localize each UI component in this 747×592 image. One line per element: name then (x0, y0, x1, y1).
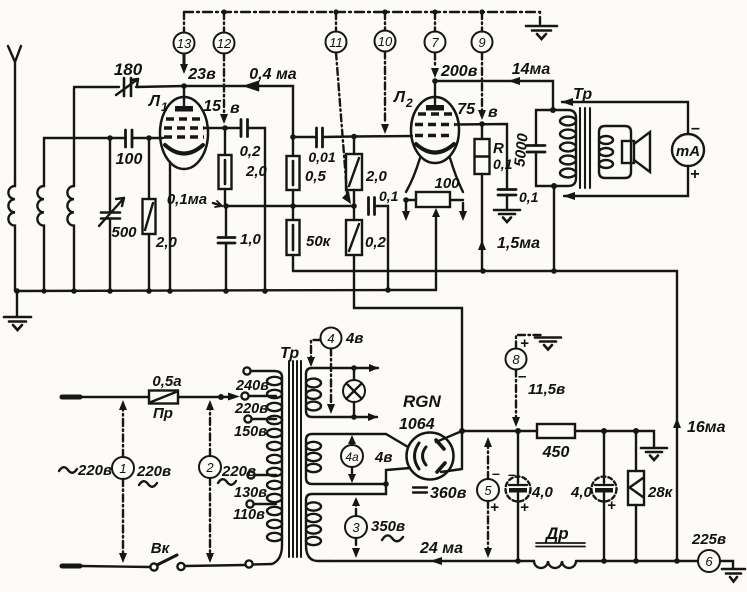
svg-text:2,0: 2,0 (155, 234, 178, 251)
svg-text:4в: 4в (374, 449, 392, 466)
svg-text:0,5: 0,5 (305, 168, 327, 185)
test point 1 (112, 400, 134, 563)
svg-text:220в: 220в (77, 462, 112, 479)
trimmer capacitor 180 (116, 78, 138, 96)
svg-text:50к: 50к (306, 233, 332, 250)
svg-text:75: 75 (457, 101, 476, 118)
svg-text:0,2: 0,2 (240, 143, 262, 160)
capacitor 0,1 coupling (369, 198, 389, 292)
node 386,484 (383, 481, 389, 487)
test point 4 (307, 328, 342, 415)
resistor 0,2 slashed (346, 206, 462, 431)
svg-text:4в: 4в (345, 330, 363, 347)
bleeder resistor 28k (628, 431, 644, 561)
svg-text:100: 100 (116, 151, 143, 168)
tube U2 cathode (416, 144, 454, 153)
svg-text:тА: тА (676, 143, 700, 160)
arrow 0,4ma (246, 82, 258, 90)
wire grid row (44, 137, 163, 139)
svg-text:130в: 130в (234, 485, 267, 501)
switch Vk (150, 555, 245, 571)
svg-text:15: 15 (203, 98, 222, 115)
svg-text:1: 1 (119, 461, 126, 476)
svg-text:200в: 200в (440, 63, 478, 80)
test point 4a (341, 435, 363, 483)
coil L1c (67, 88, 74, 291)
svg-text:+: + (520, 499, 529, 516)
svg-text:0,5а: 0,5а (152, 373, 181, 390)
svg-text:Пр: Пр (153, 405, 173, 422)
coil L1b (37, 138, 44, 291)
test point 7 (425, 12, 446, 78)
tube U1 cathode lead (169, 162, 171, 291)
svg-text:2,0: 2,0 (365, 168, 388, 185)
potentiometer 100 (403, 192, 463, 207)
wire 200v plate feed (435, 81, 553, 110)
svg-text:1: 1 (161, 100, 168, 114)
node 226,206 (223, 203, 229, 209)
resistor 2,0 anode load (219, 128, 232, 206)
svg-text:360в: 360в (430, 485, 467, 502)
node grid row (107, 135, 152, 141)
variable capacitor 500 (99, 138, 124, 291)
svg-text:4а: 4а (345, 450, 359, 464)
wire top row (74, 86, 293, 137)
svg-text:–: – (492, 465, 500, 481)
svg-text:+: + (490, 499, 499, 516)
tube U1 grids (164, 119, 204, 137)
power transformer primary winding (267, 377, 282, 564)
test point 2 (199, 400, 221, 563)
svg-text:23в: 23в (187, 66, 216, 83)
svg-text:R: R (493, 140, 504, 157)
node 604,431 (601, 428, 607, 434)
svg-text:100: 100 (434, 175, 460, 192)
wire meter top (561, 98, 688, 134)
electrolytic capacitor 4,0 first (506, 431, 531, 561)
svg-text:6: 6 (705, 554, 713, 569)
test point 3 (345, 497, 367, 558)
wire grid L2 (354, 135, 412, 138)
rectifier tube RGN1064 (407, 433, 454, 480)
svg-text:4: 4 (327, 331, 334, 346)
B+ wire to filter (462, 431, 654, 447)
secondary HV 350v winding (306, 485, 386, 561)
capacitor 100 (126, 130, 133, 147)
arrow 16ma (673, 418, 681, 428)
svg-text:0,1: 0,1 (519, 189, 539, 205)
svg-text:2,0: 2,0 (245, 163, 268, 180)
svg-text:–: – (518, 368, 526, 385)
svg-text:0,1: 0,1 (379, 188, 399, 204)
fuse Pr 0,5a (149, 391, 233, 404)
svg-text:0,1ма: 0,1ма (167, 191, 207, 208)
svg-text:+: + (607, 497, 616, 514)
arrow 0,1ma (213, 201, 222, 207)
test point 11 (326, 12, 352, 204)
choke Dr (534, 543, 585, 568)
node 636,431 (633, 428, 639, 434)
svg-text:Тр: Тр (573, 86, 592, 103)
capacitor 0,01 (293, 128, 354, 147)
ground at 6 (720, 561, 745, 582)
svg-text:1,5ма: 1,5ма (497, 235, 540, 252)
svg-text:24 ма: 24 ма (419, 540, 463, 557)
svg-text:13: 13 (177, 36, 192, 51)
bus A plus rail (293, 271, 677, 561)
resistor R 0,1 two-section (475, 124, 490, 271)
arrow pot right down (459, 203, 467, 221)
wire anode L2 row (455, 124, 507, 188)
ground at 8 (535, 338, 561, 350)
svg-text:Вк: Вк (151, 540, 171, 557)
arrow pot wiper up (432, 208, 440, 290)
svg-text:12: 12 (217, 36, 232, 51)
capacitor 0,2 (241, 120, 248, 137)
pilot lamp (343, 365, 365, 420)
node 554,271 (551, 268, 557, 274)
tube U2 filament legs (406, 158, 463, 192)
secondary 4v pilot winding (306, 364, 379, 421)
svg-text:16ма: 16ма (687, 419, 726, 436)
svg-text:4,0: 4,0 (570, 484, 593, 501)
svg-text:9: 9 (478, 35, 485, 50)
node 221,397 (218, 394, 224, 400)
arrow to tap 220v (228, 393, 240, 401)
tube U1 top cap (175, 86, 193, 112)
svg-text:220в: 220в (136, 463, 171, 480)
svg-text:10: 10 (378, 34, 393, 49)
test point 5 (477, 437, 499, 558)
arrow 1,5ma (478, 240, 486, 250)
node 225,128 (222, 125, 228, 131)
test point 10 (375, 12, 396, 134)
svg-text:–: – (691, 120, 700, 137)
bottom bus nodes (515, 558, 680, 564)
top bus nodes (221, 9, 484, 14)
svg-text:2: 2 (405, 96, 413, 110)
coil L1a antenna coil (8, 178, 15, 291)
svg-text:4,0: 4,0 (531, 484, 554, 501)
node 518,431 (515, 428, 521, 434)
tube U2 top cap (426, 80, 444, 111)
electrolytic capacitor 4,0 second (592, 431, 617, 561)
svg-text:150в: 150в (234, 424, 267, 440)
resistor 0,5 (287, 137, 300, 206)
node 435,81 (432, 78, 438, 84)
test point 13 (174, 12, 195, 74)
svg-text:Л: Л (148, 93, 161, 110)
ground under 0,1 (494, 210, 520, 222)
svg-text:1,0: 1,0 (240, 231, 262, 248)
wire screen row (226, 205, 354, 207)
svg-text:в: в (230, 100, 240, 117)
test point 9 (472, 12, 493, 120)
svg-text:110в: 110в (233, 507, 265, 523)
svg-text:225в: 225в (691, 531, 726, 548)
output transformer primary (553, 110, 576, 186)
svg-text:0,01: 0,01 (308, 149, 335, 165)
svg-text:7: 7 (431, 35, 439, 50)
node 354,136 (351, 134, 357, 140)
ground right of 450 (641, 448, 667, 460)
capacitor 0,1 to ground (498, 190, 516, 210)
label 220v left of 1 (59, 467, 77, 473)
svg-text:180: 180 (114, 60, 143, 79)
AC input bottom stub (62, 566, 150, 567)
svg-text:0,4 ма: 0,4 ма (249, 66, 297, 83)
svg-text:+: + (520, 335, 529, 352)
node 388,290 (385, 287, 391, 293)
tube U1 cathode (165, 145, 203, 154)
resistor 2,0 grid leak (143, 138, 156, 291)
ground top (526, 26, 557, 39)
test point 6 (698, 550, 720, 572)
node 354,206 (351, 203, 357, 209)
arrow 24ma (430, 557, 442, 565)
capacitor 5000 (527, 110, 554, 186)
node anode L1 (181, 83, 187, 89)
capacitor 1,0 (218, 206, 235, 291)
tube U2 envelope (411, 97, 459, 163)
node 462,431 (459, 428, 465, 434)
svg-text:450: 450 (542, 444, 570, 461)
antenna (8, 46, 21, 178)
svg-text:350в: 350в (371, 518, 405, 535)
bus B nodes (14, 288, 268, 294)
node 483,271 (480, 268, 486, 274)
svg-text:14ма: 14ма (512, 61, 551, 78)
speaker (622, 132, 650, 172)
svg-text:5: 5 (484, 483, 492, 498)
tube U1 envelope (160, 97, 208, 169)
svg-text:RGN: RGN (403, 392, 442, 411)
svg-text:Л: Л (393, 89, 406, 106)
node 293,137 (290, 134, 296, 140)
bottom minus bus (330, 560, 698, 562)
svg-text:500: 500 (111, 224, 137, 241)
svg-text:11,5в: 11,5в (528, 381, 565, 398)
output transformer secondary (599, 126, 631, 178)
arrow pot left down (402, 203, 410, 221)
svg-text:Тр: Тр (280, 345, 299, 362)
wire meter bottom (563, 166, 688, 200)
node 482,124 (479, 121, 485, 127)
svg-text:2: 2 (205, 460, 214, 475)
resistor 2,0 slashed (346, 137, 362, 207)
power transformer taps (241, 367, 282, 567)
svg-text:–: – (508, 466, 516, 482)
svg-text:240в: 240в (235, 378, 269, 394)
svg-text:+: + (690, 166, 699, 183)
svg-text:1064: 1064 (399, 416, 435, 433)
svg-text:в: в (488, 104, 498, 121)
tube U2 grids (415, 114, 455, 136)
output transformer core (580, 108, 590, 188)
svg-text:Др: Др (544, 524, 569, 543)
svg-text:8: 8 (512, 352, 520, 367)
test point 8 (506, 335, 544, 427)
svg-text:0,1: 0,1 (493, 156, 513, 172)
svg-text:28к: 28к (647, 484, 674, 501)
AC input top stub (62, 395, 149, 400)
svg-text:5000: 5000 (511, 132, 531, 168)
dash-dot top bus (184, 12, 540, 24)
resistor 50k (287, 206, 300, 271)
power transformer core (289, 361, 301, 557)
ground left (4, 291, 31, 330)
arrow 14ma (508, 77, 520, 85)
svg-text:11: 11 (329, 35, 343, 50)
resistor 450 (537, 424, 575, 438)
milliammeter mA (672, 134, 704, 166)
svg-text:220в: 220в (234, 401, 268, 417)
svg-text:0,2: 0,2 (365, 234, 387, 251)
wire 554 drop (553, 186, 555, 271)
svg-text:3: 3 (352, 520, 360, 535)
test point 12 (214, 12, 235, 124)
anode connection triangle (436, 431, 462, 472)
label =360v (413, 488, 427, 493)
wire anode L1 row (204, 128, 265, 291)
node 553,110 (550, 107, 556, 113)
secondary 4a rectifier filament winding (306, 434, 410, 484)
node 293,206 (290, 203, 296, 209)
bus B ground rail (17, 290, 436, 291)
node 554,186 (551, 183, 557, 189)
